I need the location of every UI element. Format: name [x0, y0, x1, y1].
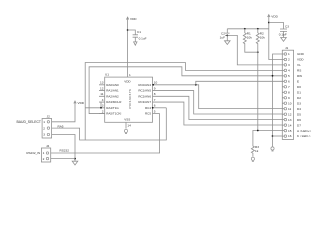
- node junction GND/RW: [272, 75, 274, 77]
- svg-text:RC0/AN4: RC0/AN4: [138, 83, 151, 87]
- wire J4 pin2 to ground: [51, 158, 75, 160]
- svg-text:RC5: RC5: [145, 112, 151, 116]
- svg-text:11: 11: [288, 107, 291, 111]
- power VDD (top, to U1 pin 1): [126, 17, 137, 21]
- svg-text:7: 7: [288, 85, 290, 89]
- svg-text:14: 14: [127, 124, 131, 128]
- wire J4 pin1 RS232 to U1 RC5: [51, 114, 160, 153]
- capacitor C2: [220, 29, 230, 41]
- svg-text:D4: D4: [297, 107, 301, 111]
- svg-text:8: 8: [288, 91, 290, 95]
- wire RC0 branch to J1 pin6 E: [196, 81, 282, 85]
- svg-text:J4: J4: [46, 144, 50, 148]
- svg-text:RA2/AN2: RA2/AN2: [106, 94, 119, 98]
- svg-text:U1: U1: [105, 72, 109, 76]
- svg-text:RC4: RC4: [145, 106, 151, 110]
- svg-text:C1: C1: [137, 30, 141, 34]
- ground (bottom right circle): [271, 147, 274, 151]
- wire U1 RC2 to J1 pin13: [153, 96, 283, 119]
- svg-text:VDD: VDD: [130, 17, 137, 21]
- svg-text:0.1uF: 0.1uF: [279, 33, 287, 37]
- svg-text:10k: 10k: [247, 36, 252, 40]
- wire J1 pin16 K to GND drop: [273, 135, 283, 137]
- svg-text:VDD: VDD: [271, 14, 278, 18]
- svg-text:A <LED+>: A <LED+>: [297, 129, 311, 133]
- svg-text:RC3/AN7: RC3/AN7: [138, 100, 151, 104]
- svg-text:BAUD_SELECT: BAUD_SELECT: [17, 120, 42, 124]
- U1 pin 14 VSS stub: [126, 122, 131, 128]
- resistor R1: [243, 29, 252, 45]
- svg-text:RW: RW: [297, 74, 302, 78]
- svg-text:1: 1: [129, 73, 131, 77]
- node junction VDD/C1: [127, 29, 129, 31]
- wire C2 branch to J1 pin3 VL: [227, 35, 282, 65]
- svg-text:1: 1: [43, 120, 45, 124]
- svg-text:14: 14: [288, 123, 292, 127]
- node junction C2 branch: [226, 35, 228, 37]
- svg-text:3: 3: [43, 133, 45, 137]
- svg-text:D0: D0: [297, 85, 301, 89]
- ground (below C2): [225, 41, 231, 45]
- wire U1 pin4 MCLR tie to pin3: [100, 102, 102, 108]
- J4 pin circles: [46, 152, 48, 160]
- wire U1 pin3 RA4 to loop: [85, 107, 105, 109]
- svg-text:VL: VL: [297, 63, 301, 67]
- svg-text:5: 5: [288, 74, 290, 78]
- node junction R1/R2 bottoms: [257, 51, 259, 53]
- svg-text:6: 6: [154, 104, 156, 108]
- capacitor C1: [133, 30, 147, 42]
- svg-text:1k: 1k: [255, 149, 259, 153]
- svg-text:RA0/AN0: RA0/AN0: [106, 83, 119, 87]
- svg-text:RA5: RA5: [58, 125, 64, 129]
- wire J1 pin1 GND down: [273, 54, 283, 147]
- wire U1 pin2 top route to J1 pin5: [89, 67, 282, 114]
- wire U1 RC3 to J1 pin14: [153, 102, 283, 125]
- svg-text:11: 11: [100, 92, 103, 96]
- J2 pin circles: [47, 121, 49, 136]
- wire VDD branch to C1: [128, 30, 136, 35]
- svg-text:2: 2: [288, 58, 290, 62]
- ground (below U1 VSS, circle symbol): [124, 129, 127, 133]
- J1 pin stubs and circles: [282, 53, 286, 138]
- svg-text:15: 15: [288, 129, 292, 133]
- node junction rail/R2: [257, 28, 259, 30]
- wire VDD branch to C3: [269, 23, 284, 30]
- svg-text:E: E: [297, 80, 299, 84]
- svg-text:13: 13: [288, 118, 292, 122]
- node junction RC4 stub: [152, 107, 154, 109]
- node junction pin4/pin3: [100, 107, 102, 109]
- svg-text:6: 6: [288, 80, 290, 84]
- wire U1 RC1 to J1 pin12: [153, 91, 283, 114]
- svg-text:RA1/AN1: RA1/AN1: [106, 89, 119, 93]
- svg-text:C3: C3: [285, 25, 289, 29]
- svg-text:VDD: VDD: [78, 101, 85, 105]
- wire J2 pin1 to VDD: [52, 105, 75, 122]
- svg-text:12: 12: [288, 112, 292, 116]
- node junction VDD/C3: [268, 22, 270, 24]
- U1 right pin numbers: [154, 81, 158, 114]
- wire J2 pin3 to ground: [52, 135, 75, 162]
- svg-text:K <LED->: K <LED->: [297, 134, 311, 138]
- wire VDD right down to J1 pin2: [269, 18, 283, 60]
- ground (left, triangle): [72, 161, 78, 165]
- svg-text:3: 3: [288, 63, 290, 67]
- wire VDD rail to R1 R2 C2: [227, 28, 268, 30]
- svg-text:10: 10: [154, 81, 158, 85]
- svg-text:D6: D6: [297, 118, 301, 122]
- connector J2 BAUD_SELECT: [42, 115, 52, 138]
- svg-text:GND: GND: [297, 52, 305, 56]
- svg-text:3: 3: [102, 104, 104, 108]
- svg-text:D7: D7: [297, 123, 301, 127]
- svg-text:2: 2: [43, 157, 45, 161]
- power VDD (left, J2 pin1): [74, 101, 85, 105]
- wire R1 bottom to R2: [245, 45, 258, 52]
- U1 right pin names: [138, 83, 151, 116]
- wire U1 RC0 to J1 pin11: [153, 85, 283, 109]
- svg-text:7: 7: [154, 98, 156, 102]
- svg-text:RA4/T1G: RA4/T1G: [106, 106, 119, 110]
- svg-text:4: 4: [288, 69, 290, 73]
- wire U1 RC4 east segment: [153, 107, 167, 109]
- U1 left pin names: [106, 83, 122, 116]
- svg-text:PIC16F676: PIC16F676: [128, 89, 132, 109]
- svg-text:RA3/MCLR: RA3/MCLR: [106, 100, 122, 104]
- svg-text:9: 9: [154, 86, 156, 90]
- IC U1 PIC16F676: [105, 72, 153, 122]
- wire ground loop left (to J1 pin4): [85, 63, 282, 141]
- J1 pin numbers: [288, 52, 292, 138]
- svg-text:J1: J1: [285, 46, 289, 50]
- svg-text:J2: J2: [47, 115, 51, 119]
- U1 left pin stubs: [99, 81, 105, 114]
- svg-text:9: 9: [288, 96, 290, 100]
- svg-text:0.1uF: 0.1uF: [139, 37, 147, 41]
- resistor R2: [256, 29, 265, 45]
- J1 pin net names: [297, 52, 311, 138]
- svg-text:4: 4: [102, 98, 104, 102]
- node junction J4 pin2 on ground wire: [74, 158, 76, 160]
- svg-text:1: 1: [288, 52, 290, 56]
- wire J2 pin2 RA5 jog down to RC4 net: [52, 108, 167, 140]
- svg-text:8: 8: [154, 92, 156, 96]
- node junction rail/R1: [244, 28, 246, 30]
- resistor R3: [251, 145, 259, 157]
- connector J1 LCD header: [282, 46, 293, 139]
- svg-text:RS: RS: [297, 69, 301, 73]
- ground (below R3 circle): [251, 157, 254, 161]
- svg-text:VDD: VDD: [297, 58, 304, 62]
- svg-text:5: 5: [154, 109, 156, 113]
- svg-text:1uF: 1uF: [220, 35, 225, 39]
- node junction RC0/E branch: [195, 84, 197, 86]
- svg-text:D3: D3: [297, 101, 301, 105]
- svg-text:RC1/AN5: RC1/AN5: [138, 89, 151, 93]
- svg-text:10k: 10k: [260, 36, 265, 40]
- power VDD (top right): [268, 14, 279, 18]
- node junction GND/K: [272, 135, 274, 137]
- svg-text:D5: D5: [297, 112, 301, 116]
- svg-text:VSS: VSS: [124, 118, 130, 122]
- svg-text:16: 16: [288, 134, 292, 138]
- svg-text:1: 1: [43, 151, 45, 155]
- node junction RC0 stub: [152, 84, 154, 86]
- ground (below C3): [281, 38, 287, 42]
- wire J1 pin15 A to R3: [253, 131, 282, 145]
- capacitor C3: [279, 25, 289, 38]
- wire R2 bottom down to LED+ net: [257, 45, 259, 131]
- svg-text:2: 2: [102, 109, 104, 113]
- svg-text:10: 10: [288, 101, 292, 105]
- wire VDD vertical to U1 pin1: [127, 21, 129, 77]
- svg-text:2: 2: [43, 126, 45, 130]
- svg-text:D1: D1: [297, 91, 301, 95]
- node junction R2/LED+: [257, 130, 259, 132]
- svg-text:12: 12: [100, 86, 104, 90]
- svg-text:RA5/T1CKI: RA5/T1CKI: [106, 112, 121, 116]
- svg-text:VDD: VDD: [124, 80, 131, 84]
- connector J4 RS232 input: [41, 144, 50, 162]
- svg-text:RS232: RS232: [60, 149, 70, 153]
- svg-text:D2: D2: [297, 96, 301, 100]
- svg-text:13: 13: [100, 81, 104, 85]
- svg-text:RS232_IN: RS232_IN: [26, 151, 40, 155]
- svg-text:RC2/AN6: RC2/AN6: [138, 94, 151, 98]
- ground (below C1): [134, 42, 137, 45]
- wire U1 RC5 east segment: [153, 113, 160, 115]
